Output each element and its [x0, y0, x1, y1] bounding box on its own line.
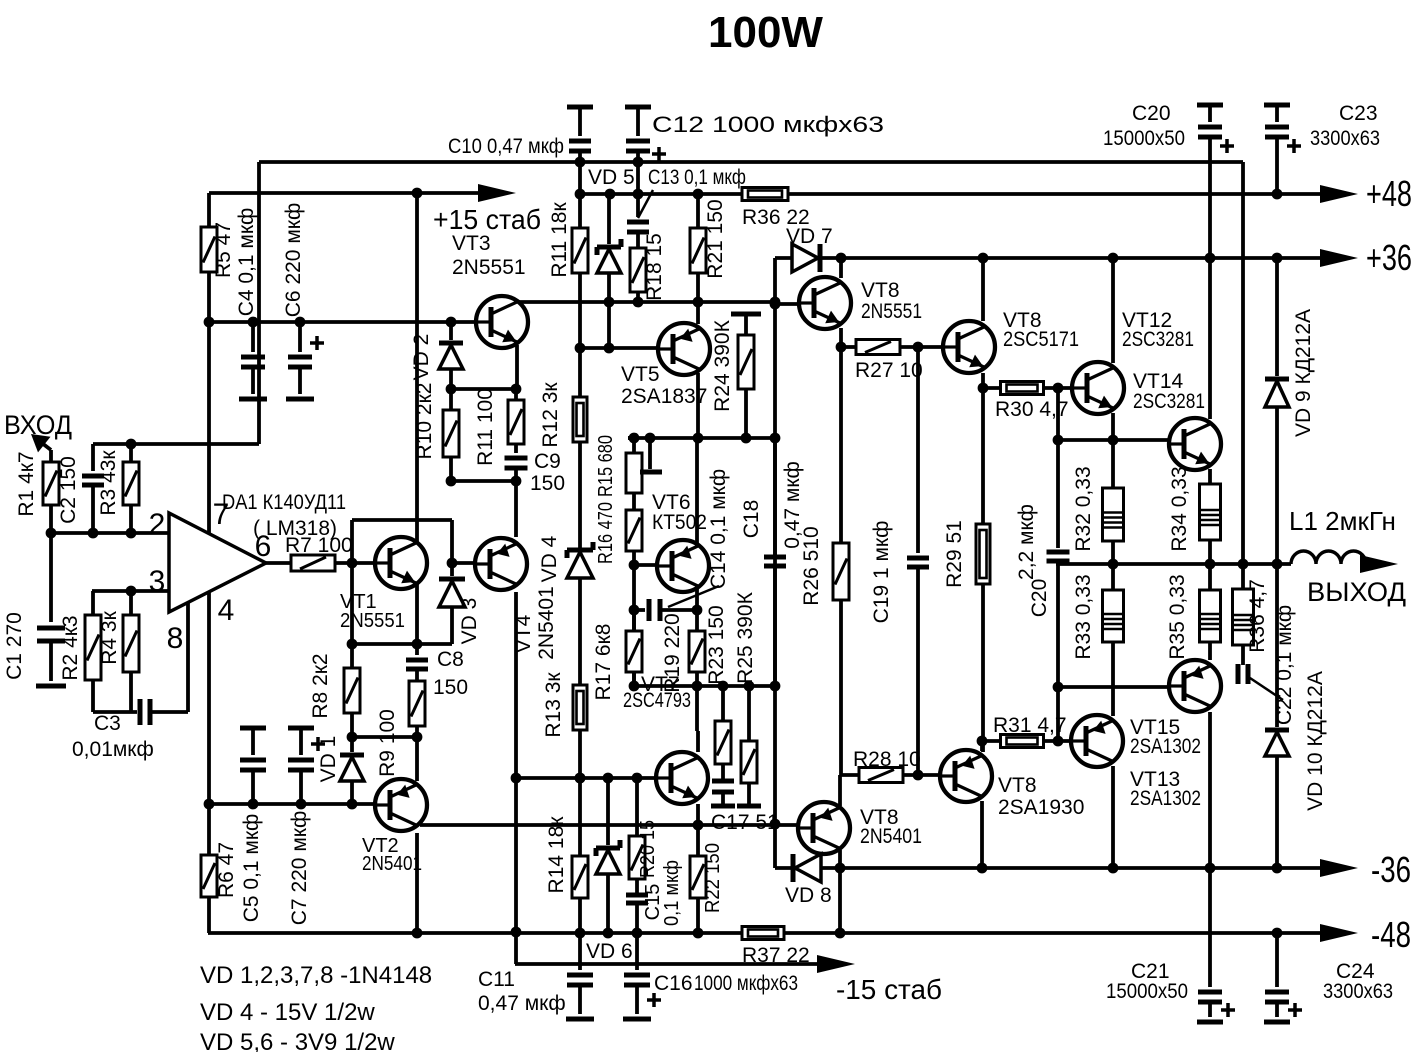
svg-text:15000x50: 15000x50 — [1106, 980, 1188, 1003]
svg-text:C20: C20 — [1132, 102, 1171, 125]
svg-text:3: 3 — [149, 565, 166, 598]
svg-text:2N5401: 2N5401 — [860, 825, 922, 848]
svg-text:C4 0,1 мкф: C4 0,1 мкф — [235, 208, 258, 317]
svg-text:C19 1 мкф: C19 1 мкф — [870, 521, 893, 624]
svg-text:C1 270: C1 270 — [3, 612, 26, 680]
svg-text:100W: 100W — [708, 8, 823, 57]
svg-text:+36: +36 — [1366, 237, 1412, 278]
svg-text:L1 2мкГн: L1 2мкГн — [1289, 506, 1396, 536]
svg-text:VD 10 КД212А: VD 10 КД212А — [1304, 671, 1327, 811]
svg-text:R3 43к: R3 43к — [97, 450, 120, 516]
svg-text:C10 0,47 мкф: C10 0,47 мкф — [448, 135, 564, 158]
svg-text:R9 100: R9 100 — [376, 709, 399, 777]
svg-text:-36: -36 — [1371, 849, 1411, 890]
svg-text:0,01мкф: 0,01мкф — [72, 738, 154, 761]
svg-text:C5 0,1 мкф: C5 0,1 мкф — [240, 814, 263, 923]
svg-text:R32 0,33: R32 0,33 — [1072, 466, 1095, 551]
svg-text:C23: C23 — [1339, 102, 1378, 125]
svg-text:VD 5,6 - 3V9 1/2w: VD 5,6 - 3V9 1/2w — [200, 1029, 395, 1052]
svg-text:R1 4к7: R1 4к7 — [15, 451, 38, 516]
svg-text:8: 8 — [167, 622, 184, 655]
svg-text:R37 22: R37 22 — [742, 944, 810, 967]
svg-text:C11: C11 — [478, 968, 515, 991]
svg-text:КТ502: КТ502 — [652, 511, 707, 534]
svg-text:2N5401: 2N5401 — [362, 853, 422, 875]
svg-text:VD 4 - 15V 1/2w: VD 4 - 15V 1/2w — [200, 999, 375, 1026]
svg-text:R8 2к2: R8 2к2 — [309, 653, 332, 718]
svg-text:VT5: VT5 — [621, 363, 660, 386]
svg-text:R21 150: R21 150 — [704, 199, 727, 278]
svg-text:2N5401: 2N5401 — [535, 586, 558, 660]
svg-text:C16: C16 — [654, 972, 693, 995]
svg-text:2SA1837: 2SA1837 — [621, 385, 707, 408]
svg-text:R19 220: R19 220 — [661, 613, 684, 692]
svg-text:VT8: VT8 — [998, 774, 1037, 797]
svg-text:-15 стаб: -15 стаб — [836, 974, 942, 1005]
svg-text:C6 220 мкф: C6 220 мкф — [282, 203, 305, 317]
svg-text:6: 6 — [255, 530, 272, 563]
svg-text:R26 510: R26 510 — [800, 526, 823, 605]
svg-text:2SC5171: 2SC5171 — [1003, 328, 1079, 351]
svg-text:C7 220 мкф: C7 220 мкф — [288, 811, 311, 925]
svg-text:C3: C3 — [94, 712, 121, 735]
svg-text:ВЫХОД: ВЫХОД — [1307, 577, 1406, 607]
svg-text:2SA1302: 2SA1302 — [1130, 735, 1201, 758]
svg-text:VD 8: VD 8 — [785, 884, 832, 907]
svg-text:R7 100: R7 100 — [285, 534, 353, 557]
svg-text:R16 470: R16 470 — [595, 502, 617, 564]
svg-text:R33 0,33: R33 0,33 — [1072, 574, 1095, 659]
svg-text:R30 4,7: R30 4,7 — [995, 398, 1069, 421]
svg-text:C12 1000 мкфх63: C12 1000 мкфх63 — [652, 112, 884, 137]
svg-text:R11 18к: R11 18к — [548, 202, 571, 278]
svg-text:R11 100: R11 100 — [474, 388, 497, 466]
svg-text:R10 2к2: R10 2к2 — [413, 383, 436, 460]
svg-text:2,2 мкф: 2,2 мкф — [1015, 504, 1038, 580]
svg-text:VD 1,2,3,7,8 -1N4148: VD 1,2,3,7,8 -1N4148 — [200, 962, 432, 989]
svg-text:C8: C8 — [437, 648, 464, 671]
svg-text:R31 4,7: R31 4,7 — [993, 714, 1067, 737]
svg-text:2N5551: 2N5551 — [452, 256, 526, 279]
svg-text:2: 2 — [149, 508, 166, 541]
svg-text:R2 4к3: R2 4к3 — [59, 615, 82, 680]
svg-text:7: 7 — [213, 498, 230, 531]
svg-text:R14 18к: R14 18к — [545, 816, 568, 894]
svg-text:R24 390К: R24 390К — [711, 319, 734, 411]
svg-text:R25 390К: R25 390К — [734, 591, 757, 683]
svg-text:R23 150: R23 150 — [705, 605, 728, 684]
svg-text:R20 15: R20 15 — [637, 820, 659, 878]
svg-text:VD 9 КД212А: VD 9 КД212А — [1292, 309, 1315, 437]
svg-text:4: 4 — [218, 594, 235, 627]
svg-text:VT4: VT4 — [512, 614, 535, 653]
svg-text:3300x63: 3300x63 — [1323, 980, 1393, 1003]
svg-text:R13 3к: R13 3к — [542, 672, 565, 738]
svg-text:C2 150: C2 150 — [57, 456, 80, 524]
svg-text:R15 680: R15 680 — [595, 435, 617, 497]
svg-text:VD 1: VD 1 — [317, 736, 340, 783]
svg-text:VD 5: VD 5 — [588, 166, 635, 189]
svg-text:R18 15: R18 15 — [643, 233, 666, 301]
svg-text:VD 2: VD 2 — [410, 334, 433, 381]
svg-text:150: 150 — [433, 676, 468, 699]
svg-text:R12 3к: R12 3к — [539, 382, 562, 448]
svg-text:VD 4: VD 4 — [538, 535, 561, 582]
svg-text:R36 4,7: R36 4,7 — [1246, 579, 1269, 653]
svg-text:+15 стаб: +15 стаб — [433, 204, 541, 235]
svg-text:0,47 мкф: 0,47 мкф — [478, 992, 566, 1015]
svg-text:R35 0,33: R35 0,33 — [1166, 574, 1189, 659]
svg-text:C13 0,1 мкф: C13 0,1 мкф — [648, 166, 746, 189]
svg-text:C17 51: C17 51 — [711, 811, 779, 834]
svg-text:ВХОД: ВХОД — [4, 410, 72, 440]
svg-text:R29 51: R29 51 — [943, 520, 966, 588]
svg-text:C22 0,1 мкф: C22 0,1 мкф — [1273, 605, 1296, 725]
svg-text:R17 6к8: R17 6к8 — [592, 624, 615, 701]
svg-text:2SC3281: 2SC3281 — [1133, 390, 1205, 413]
svg-text:R27 10: R27 10 — [855, 359, 923, 382]
svg-text:VD 3: VD 3 — [458, 598, 481, 645]
svg-text:150: 150 — [530, 472, 565, 495]
svg-text:DA1 К140УД11: DA1 К140УД11 — [222, 491, 346, 514]
svg-text:2SA1930: 2SA1930 — [998, 796, 1084, 819]
svg-text:VD 6: VD 6 — [586, 940, 633, 963]
svg-text:2N5551: 2N5551 — [861, 300, 922, 323]
svg-text:C14 0,1 мкф: C14 0,1 мкф — [707, 469, 730, 589]
svg-text:1000 мкфх63: 1000 мкфх63 — [694, 972, 798, 995]
svg-text:15000x50: 15000x50 — [1103, 127, 1185, 150]
svg-text:C9: C9 — [534, 450, 561, 473]
svg-text:2SC3281: 2SC3281 — [1122, 328, 1194, 351]
svg-text:VD 7: VD 7 — [786, 225, 833, 248]
svg-text:-48: -48 — [1371, 914, 1411, 955]
svg-text:2N5551: 2N5551 — [340, 610, 405, 632]
svg-text:VT3: VT3 — [452, 232, 491, 255]
svg-text:2SA1302: 2SA1302 — [1130, 787, 1201, 810]
svg-text:R22 150: R22 150 — [702, 843, 724, 913]
svg-text:R34 0,33: R34 0,33 — [1168, 466, 1191, 551]
svg-text:VT8: VT8 — [861, 279, 900, 302]
svg-text:3300x63: 3300x63 — [1310, 127, 1380, 150]
svg-text:+48: +48 — [1366, 173, 1412, 214]
svg-text:C20: C20 — [1028, 579, 1051, 618]
svg-text:R5 47: R5 47 — [212, 222, 235, 278]
svg-text:C18: C18 — [740, 500, 763, 539]
svg-text:R4 3к: R4 3к — [98, 610, 121, 664]
svg-text:R6 47: R6 47 — [215, 842, 238, 898]
svg-text:0,1 мкф: 0,1 мкф — [661, 860, 683, 926]
svg-text:R28 10: R28 10 — [853, 748, 921, 771]
